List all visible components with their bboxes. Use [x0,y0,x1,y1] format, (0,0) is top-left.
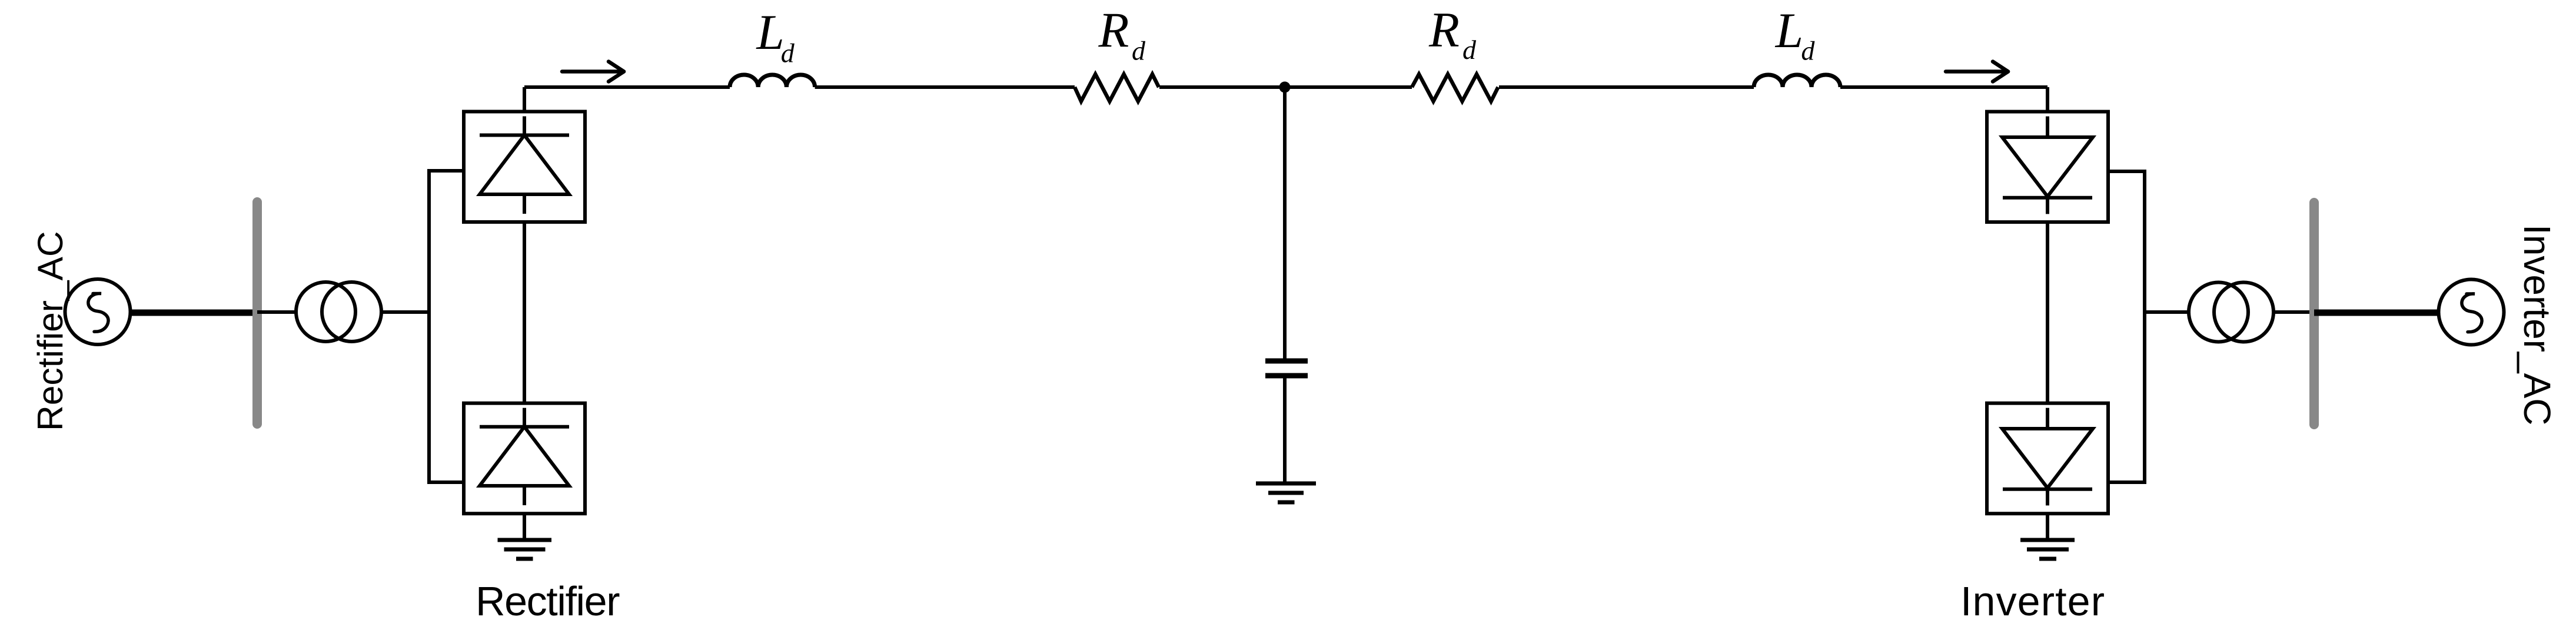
diode (rectifier top): cathode bar [480,134,569,137]
AC source Inverter_AC [2439,280,2504,345]
current arrow (inverter side) [1946,62,2008,82]
wire transformer to bus [2273,310,2314,314]
resistor Rd (right) [1412,74,1498,101]
valve group box (rectifier bottom) [464,403,585,514]
capacitor C bottom plate [1265,373,1308,379]
transformer T1 [296,282,355,342]
svg-text:d: d [781,38,795,68]
wire between rectifier boxes [523,222,526,403]
capacitor C top plate [1265,359,1308,364]
resistor Rd (left) [1075,74,1159,101]
wire source to bus (thick) [130,310,260,316]
diode (rectifier bottom): pin stubs [523,408,526,427]
diode (inverter bottom): cathode bar [2003,488,2092,491]
wire bus to source (thick) [2314,310,2439,316]
valve group box (inverter bottom) [1987,403,2108,514]
wire rectifier top box to DC line [523,87,526,112]
wire bus to transformer [257,310,297,314]
bus bar (inverter) [2309,203,2319,425]
wire bracket to transformer [2145,310,2191,314]
svg-text:Inverter_AC: Inverter_AC [2516,224,2558,425]
node junction dot [1279,82,1291,93]
diode (rectifier bottom): cathode bar [480,425,569,429]
svg-text:R: R [1428,2,1460,58]
wire bracket (inverter AC side) [2108,171,2145,482]
ground (inverter) [2020,538,2075,542]
valve group box (inverter top) [1987,112,2108,223]
wire transformer to valve bracket [381,310,429,314]
svg-text:Inverter: Inverter [1960,578,2105,624]
valve group box (rectifier top) [464,112,585,223]
wire inverter box to ground [2046,513,2049,538]
svg-text:d: d [1801,35,1815,65]
transformer T2 [2189,283,2248,342]
inductor Ld (left) [730,75,815,87]
diode (rectifier top): triangle [480,135,569,195]
diode (inverter bottom): triangle [2002,429,2093,488]
wire resistor to inductor (right) [1499,85,1754,89]
wire resistor to junction (left) [1159,85,1412,89]
wire capacitor to ground [1283,378,1287,482]
diode (rectifier bottom): triangle [480,427,569,486]
diode (inverter top): cathode bar [2003,196,2092,200]
wire bracket (rectifier AC side) [429,171,464,482]
inductor Ld (right) [1754,75,1840,87]
ground (capacitor) [1256,482,1316,486]
svg-text:Rectifier: Rectifier [476,578,620,624]
svg-text:Rectifier_AC: Rectifier_AC [30,231,70,431]
wire rectifier box to ground [523,513,526,538]
DC line left section [524,85,730,89]
svg-text:L: L [756,5,785,60]
diode (inverter bottom): pin stubs [2046,408,2049,429]
wire inductor to resistor (left) [815,85,1075,89]
DC line right section [1840,85,2047,89]
wire between inverter boxes [2046,222,2049,403]
diode (inverter top): pin stubs [2046,117,2049,137]
current arrow (rectifier side) [562,62,624,82]
diode (rectifier top): pin stubs [523,117,526,135]
svg-text:L: L [1775,3,1803,58]
bus bar (rectifier) [252,202,262,424]
diode (inverter top): triangle [2002,137,2093,197]
ground (rectifier) [498,538,552,542]
wire DC line down to inverter [2046,87,2049,112]
AC source Rectifier_AC [65,279,131,344]
svg-text:d: d [1132,35,1146,65]
wire junction to capacitor [1283,87,1287,359]
svg-text:d: d [1462,35,1477,65]
svg-text:R: R [1098,3,1129,58]
